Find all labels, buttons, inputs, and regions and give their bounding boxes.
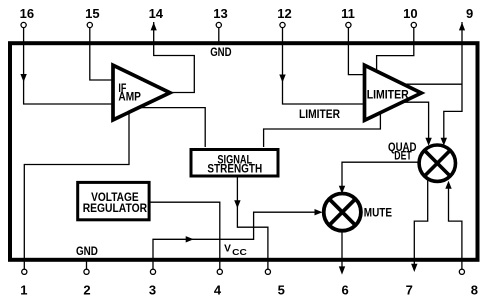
svg-text:V: V — [224, 244, 231, 255]
svg-text:LIMITER: LIMITER — [299, 109, 341, 121]
voltage regulator block — [78, 182, 149, 219]
svg-text:6: 6 — [341, 283, 348, 298]
pin 14 (arrow out) — [149, 6, 164, 31]
pin 6 (arrow out) — [339, 266, 349, 297]
wire pin2 GND stub — [86, 259, 88, 269]
pin 15 — [85, 6, 99, 28]
svg-text:12: 12 — [277, 6, 291, 21]
svg-text:LIMITER: LIMITER — [367, 89, 410, 101]
svg-text:1: 1 — [20, 283, 27, 298]
pin 11 — [341, 6, 355, 28]
wire pin5 to signal strength output — [237, 176, 268, 269]
svg-text:3: 3 — [149, 283, 156, 298]
wire limiter slope to quad det (left) — [404, 102, 429, 140]
pin 4 — [214, 269, 223, 298]
arrow up into quad det bottom — [445, 181, 451, 189]
wire limiter slope to signal strength — [264, 114, 381, 148]
wire mute to pin6 — [341, 231, 343, 267]
wire pin3 to mute input — [153, 212, 316, 269]
wire pin11 to limiter upper input — [348, 28, 363, 75]
limiter triangle U2 — [365, 65, 422, 120]
svg-text:DET: DET — [394, 151, 411, 163]
pin 7 (arrow out) — [406, 264, 418, 298]
wire pin4 VCC to voltage regulator — [150, 202, 220, 269]
arrow right into mute — [315, 209, 323, 215]
pin 2 — [83, 269, 90, 298]
wire quad det to mute — [342, 162, 420, 188]
wire pin12 to limiter lower input — [283, 28, 364, 104]
svg-text:AMP: AMP — [118, 92, 141, 104]
svg-text:CC: CC — [232, 247, 247, 257]
wire quad det to pin7 — [414, 181, 427, 265]
svg-text:8: 8 — [471, 283, 478, 298]
wire pin15 to IF amp upper input — [90, 28, 112, 80]
pin 8 — [459, 269, 478, 298]
svg-text:13: 13 — [213, 6, 227, 21]
arrow right on pin3 wire — [186, 236, 194, 242]
svg-text:15: 15 — [85, 6, 99, 21]
arrow down into mute — [339, 186, 345, 194]
mute mixer — [324, 194, 361, 231]
wire limiter output to pin9 vertical — [405, 83, 462, 85]
wire pin9 / limiter output — [444, 22, 462, 141]
svg-text:14: 14 — [149, 6, 164, 21]
wire pin14 hook to IF amp output — [154, 22, 195, 93]
svg-text:2: 2 — [83, 283, 90, 298]
pin 16 — [20, 6, 34, 28]
pin 5 — [265, 269, 285, 298]
pin 12 — [277, 6, 291, 28]
wire pin8 to quad det — [449, 186, 462, 269]
svg-text:5: 5 — [278, 283, 285, 298]
arrow down into quad det (left) — [425, 138, 431, 146]
wire pin1 to IF amp bottom — [24, 113, 129, 270]
svg-text:9: 9 — [466, 6, 473, 21]
wire pin16 to IF amp lower input — [24, 28, 112, 104]
IC outline box — [10, 43, 478, 260]
pin 13 — [213, 6, 227, 28]
arrow down into quad det (right) — [441, 138, 447, 146]
wire IF amp slope to signal strength — [141, 108, 205, 147]
arrow down on pin16 wire — [20, 74, 26, 82]
pin 9 (arrow out) — [459, 6, 473, 31]
IF amp triangle U1 — [113, 65, 170, 120]
wire pin13 GND stub — [218, 28, 220, 43]
svg-text:11: 11 — [341, 6, 355, 21]
svg-text:REGULATOR: REGULATOR — [83, 203, 148, 215]
pin 10 — [403, 6, 417, 28]
svg-text:GND: GND — [76, 246, 98, 258]
pin 1 — [20, 269, 27, 298]
svg-text:MUTE: MUTE — [364, 207, 392, 219]
svg-text:GND: GND — [210, 47, 231, 59]
wire pin10 to limiter top — [377, 28, 414, 70]
svg-text:16: 16 — [20, 6, 34, 21]
arrow down on signal strength output — [234, 200, 240, 208]
svg-text:7: 7 — [406, 283, 413, 298]
svg-text:STRENGTH: STRENGTH — [207, 164, 262, 176]
pin 3 — [149, 269, 156, 298]
svg-text:4: 4 — [214, 283, 222, 298]
signal strength block — [191, 150, 278, 177]
svg-text:10: 10 — [403, 6, 417, 21]
arrow down on pin12 wire — [279, 75, 285, 83]
quad det mixer — [419, 145, 455, 181]
